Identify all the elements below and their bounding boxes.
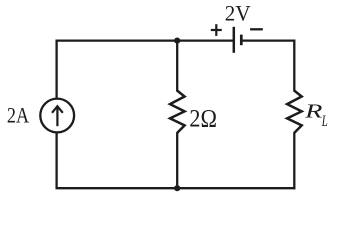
junction dot top node xyxy=(174,38,180,44)
resistor RL zigzag xyxy=(287,91,302,133)
wire right upper (top wire to resistor RL) xyxy=(293,40,295,92)
svg-text:2V: 2V xyxy=(225,0,251,25)
svg-text:R: R xyxy=(304,101,323,122)
label RL (load resistor) xyxy=(304,101,328,130)
wire bottom segment xyxy=(56,187,296,189)
resistor 2ohm zigzag xyxy=(170,91,185,133)
wire right lower (resistor RL to bottom wire) xyxy=(293,132,295,189)
wire left upper (top wire down to current source) xyxy=(55,40,57,100)
battery V1 long plate (+) xyxy=(233,27,236,53)
label - (battery negative sign) xyxy=(250,28,263,30)
battery V1 short plate (-) xyxy=(240,35,243,46)
svg-text:L: L xyxy=(321,113,328,130)
current source I1 arrow xyxy=(52,106,63,126)
junction dot bottom node xyxy=(174,185,180,191)
wire top-left segment (node A to battery +) xyxy=(56,39,234,41)
svg-text:2A: 2A xyxy=(7,102,30,127)
label + (battery positive sign) xyxy=(211,24,222,36)
current source I1 circle xyxy=(40,99,74,133)
svg-text:2Ω: 2Ω xyxy=(189,104,217,133)
wire middle upper (top node to resistor 2ohm) xyxy=(176,41,178,92)
wire middle lower (resistor 2ohm to bottom node) xyxy=(176,132,178,188)
wire top-right segment (battery - to node B) xyxy=(241,39,294,41)
wire left lower (current source to bottom wire) xyxy=(55,132,57,189)
